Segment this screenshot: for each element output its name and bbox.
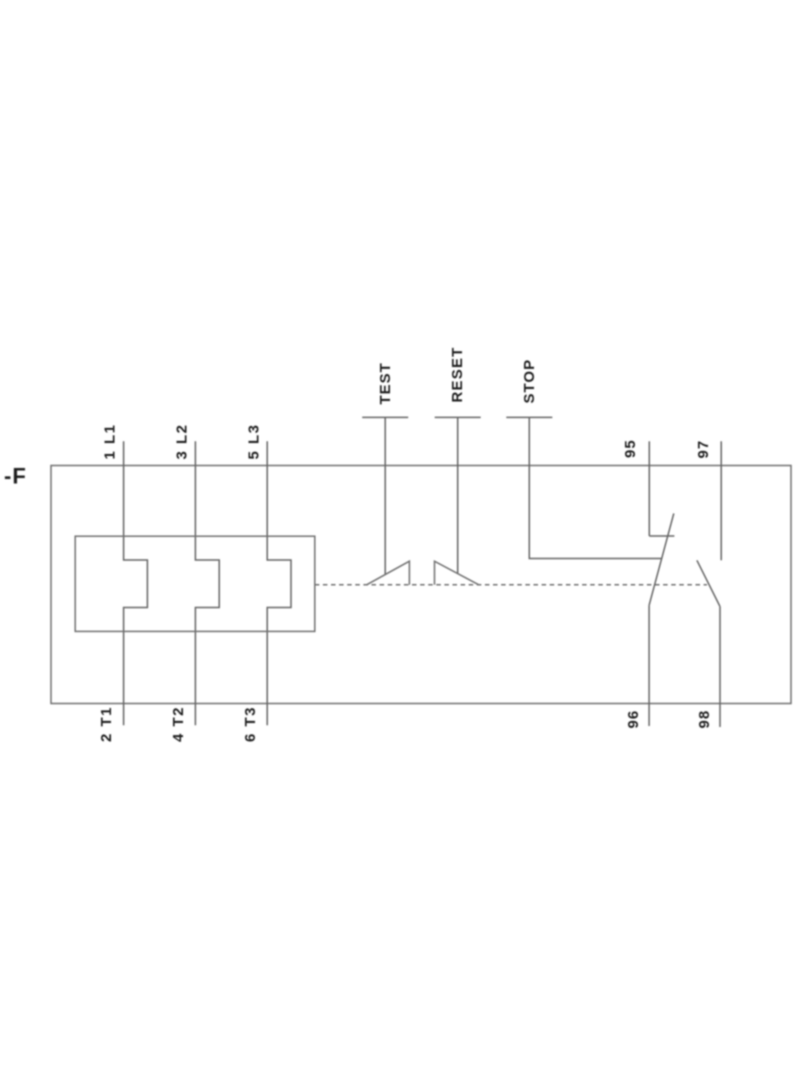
svg-text:TEST: TEST [377, 362, 394, 404]
test cam wedge [367, 561, 410, 585]
pole wire L2-T2 with bimetal notch [195, 441, 219, 725]
terminal 98 wire [719, 606, 721, 727]
svg-text:96: 96 [625, 710, 642, 729]
svg-text:95: 95 [622, 439, 639, 458]
NC moving contact lever [649, 513, 674, 605]
svg-text:97: 97 [695, 440, 712, 459]
svg-text:3 L2: 3 L2 [174, 423, 191, 459]
terminal 96 wire [648, 605, 650, 726]
relay housing outline [51, 466, 791, 704]
pole wire L1-T1 with bimetal notch [124, 441, 148, 725]
TEST button actuator [362, 417, 408, 574]
svg-text:2 T1: 2 T1 [98, 706, 115, 742]
terminal 95 wire [648, 441, 650, 536]
RESET button actuator [435, 417, 481, 573]
svg-text:STOP: STOP [521, 359, 538, 404]
reset cam wedge [435, 561, 479, 585]
trip linkage (dashed) [315, 584, 707, 586]
NO moving contact lever [697, 560, 720, 606]
svg-text:5 L3: 5 L3 [246, 423, 263, 459]
svg-text:6 T3: 6 T3 [242, 706, 259, 742]
heater block frame [75, 536, 315, 631]
NC fixed contact seat [649, 535, 674, 537]
terminal 97 wire [720, 441, 722, 560]
svg-text:98: 98 [696, 710, 713, 729]
svg-text:4 T2: 4 T2 [170, 706, 187, 742]
pole wire L3-T3 with bimetal notch [267, 441, 291, 725]
svg-text:-F: -F [4, 464, 27, 489]
STOP button actuator [506, 417, 661, 558]
svg-text:RESET: RESET [449, 346, 466, 402]
svg-text:1 L1: 1 L1 [102, 423, 119, 459]
